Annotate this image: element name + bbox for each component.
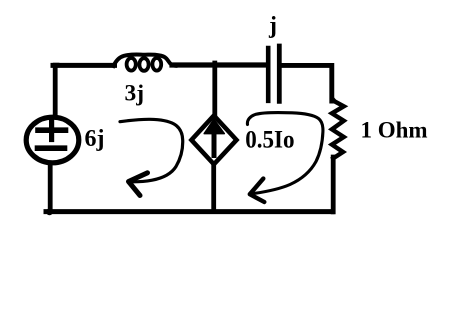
label j — [268, 13, 277, 39]
wire capacitor to top-right corner — [281, 65, 332, 101]
mesh current arrow I1 (left loop) — [120, 119, 183, 195]
node bottom-left junction — [46, 208, 53, 215]
wire below current source — [211, 165, 216, 211]
svg-text:j: j — [268, 13, 277, 39]
label 3j — [125, 81, 145, 107]
inductor L 3j — [114, 54, 176, 70]
svg-text:1 Ohm: 1 Ohm — [361, 118, 428, 143]
label 0.5Io — [245, 126, 294, 153]
label 6j — [85, 126, 105, 152]
wire junction to current source — [212, 63, 217, 116]
resistor R 1 Ohm — [332, 99, 344, 158]
voltage source V1 — [26, 117, 79, 163]
capacitor C j — [268, 46, 279, 101]
wire left bottom — [48, 163, 53, 211]
wire top segment left — [53, 63, 115, 68]
svg-text:6j: 6j — [85, 126, 105, 152]
wire top-left vertical — [55, 65, 57, 116]
svg-text:3j: 3j — [125, 81, 145, 107]
mesh current arrow I2 (right loop) — [247, 112, 323, 202]
wire bottom — [46, 209, 332, 214]
label 1 Ohm — [361, 118, 428, 143]
svg-text:0.5Io: 0.5Io — [245, 126, 294, 153]
wire top segment middle — [172, 62, 267, 67]
dependent current source 0.5Io — [191, 116, 236, 165]
wire resistor to bottom — [331, 157, 336, 212]
